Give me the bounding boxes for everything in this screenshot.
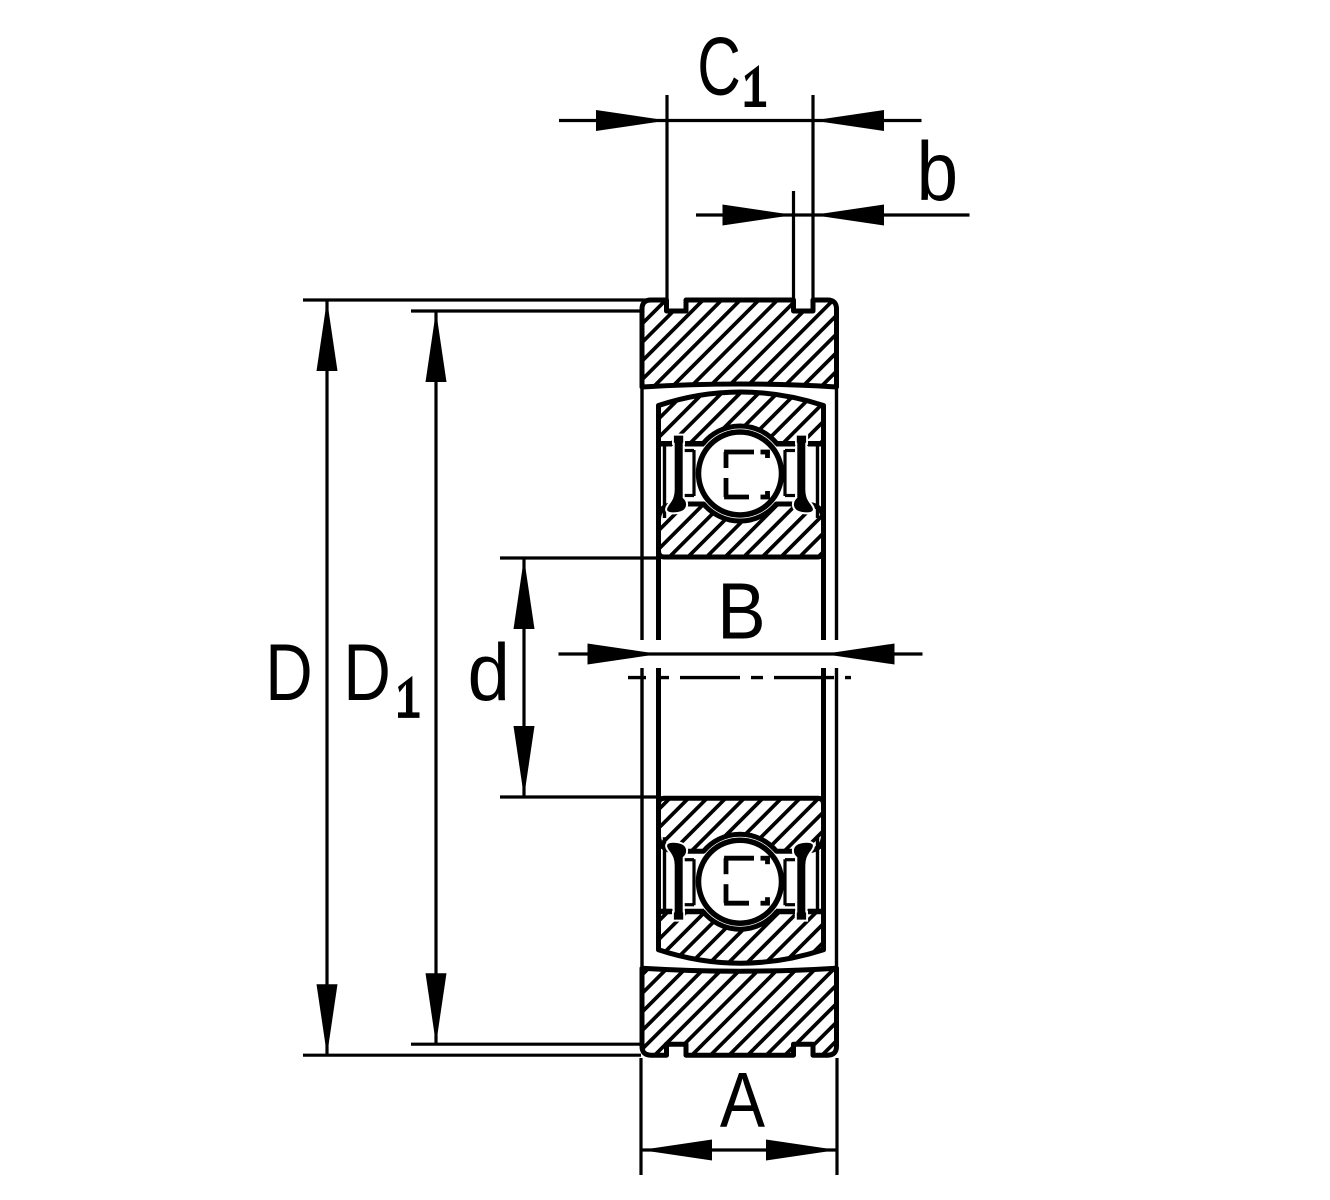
square bottom [724, 856, 754, 861]
housing right silhouette line [835, 389, 838, 640]
seal seat lines [663, 446, 666, 518]
seal bottom-right [793, 842, 814, 921]
race edge overlay segments [660, 442, 673, 447]
dim C1 [559, 119, 922, 122]
cage top [692, 450, 695, 496]
dim D [303, 298, 648, 301]
dim B [559, 652, 923, 655]
ball top [699, 432, 782, 515]
subscript 1 of C1 [745, 65, 767, 107]
svg-text:B: B [717, 567, 766, 656]
dim b [696, 213, 970, 216]
svg-text:d: d [468, 627, 510, 717]
seal top-right [793, 435, 814, 514]
dim A [639, 1058, 642, 1175]
dim D1 [411, 309, 641, 312]
ball bottom [699, 840, 782, 923]
svg-text:D: D [343, 626, 390, 717]
subscript 1 of D1 [398, 676, 420, 718]
seal bottom-left [666, 842, 687, 921]
svg-text:A: A [720, 1057, 765, 1144]
svg-text:b: b [917, 124, 959, 218]
svg-text:D: D [265, 626, 312, 717]
insert right face line [821, 406, 826, 641]
insert left face line [656, 406, 661, 641]
dim d [500, 556, 658, 559]
square top [724, 450, 754, 455]
seal top-left [666, 435, 687, 514]
centerline [628, 676, 851, 679]
cage bottom [692, 859, 695, 905]
housing left silhouette line [640, 389, 643, 640]
svg-text:C: C [697, 20, 741, 113]
